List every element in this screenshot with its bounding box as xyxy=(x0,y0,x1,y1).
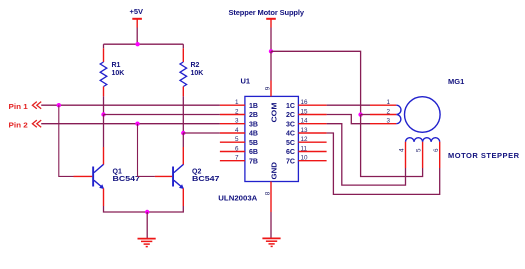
svg-text:11: 11 xyxy=(301,145,308,152)
svg-text:MG1: MG1 xyxy=(448,77,464,86)
wire R1 to row2 xyxy=(103,96,105,114)
svg-text:COM: COM xyxy=(272,102,279,122)
motor pin numbers 1 2 3 xyxy=(386,99,390,125)
resistor R2 xyxy=(180,44,203,96)
U1 pin 9 lead xyxy=(270,81,272,97)
svg-text:9: 9 xyxy=(265,86,272,90)
wire R1 junction to Q1 collector xyxy=(103,115,105,148)
wire supply rail right xyxy=(271,51,361,114)
U1 inside pin names left xyxy=(249,103,258,166)
svg-text:1C: 1C xyxy=(286,103,295,110)
svg-text:12: 12 xyxy=(301,136,309,143)
svg-text:MOTOR STEPPER: MOTOR STEPPER xyxy=(448,151,520,160)
junction Pin1/Q1 base xyxy=(57,103,61,107)
svg-text:1B: 1B xyxy=(249,103,258,110)
svg-text:10: 10 xyxy=(301,155,309,162)
junction supply/motor pin2 xyxy=(358,112,362,116)
wire +5V to rail xyxy=(136,28,138,45)
input Pin 2 xyxy=(9,120,42,129)
junction row3/Q2 base xyxy=(135,122,139,126)
wire supply to COM pin9 xyxy=(270,51,272,80)
svg-text:Q1: Q1 xyxy=(113,168,122,175)
transistor Q2 xyxy=(155,147,220,206)
wire row2 R1 to U1 pin2 xyxy=(104,114,220,116)
svg-text:6C: 6C xyxy=(286,149,295,156)
svg-text:4C: 4C xyxy=(286,131,295,138)
wire rail R1-R2 xyxy=(104,43,184,45)
svg-text:3C: 3C xyxy=(286,121,295,128)
svg-text:6: 6 xyxy=(235,145,239,152)
junction rail xyxy=(135,42,139,46)
motor MG1 xyxy=(405,77,520,160)
svg-text:10K: 10K xyxy=(191,70,204,77)
svg-text:BC547: BC547 xyxy=(192,176,220,183)
motor pin numbers 4 5 6 xyxy=(399,148,440,152)
motor pin3 lead xyxy=(370,123,396,125)
op IC U1 ULN2003A box xyxy=(218,77,298,203)
transistor Q1 xyxy=(74,147,141,206)
ground right xyxy=(262,238,280,246)
svg-text:2B: 2B xyxy=(249,112,258,119)
motor pin6 lead xyxy=(439,142,441,168)
resistor R1 xyxy=(100,44,124,96)
svg-text:Q2: Q2 xyxy=(192,168,201,175)
U1 left pin numbers xyxy=(235,99,239,162)
svg-text:3: 3 xyxy=(386,118,390,125)
svg-text:5C: 5C xyxy=(286,140,295,147)
svg-text:2: 2 xyxy=(235,108,239,115)
wire row1 Pin1 to U1 pin1 xyxy=(41,104,220,106)
U1 right pin leads 16-10 xyxy=(298,105,326,161)
svg-text:7C: 7C xyxy=(286,158,295,165)
svg-text:7: 7 xyxy=(235,155,239,162)
svg-text:1: 1 xyxy=(386,99,390,106)
wire pin8 to ground xyxy=(270,212,272,238)
svg-text:4: 4 xyxy=(235,127,239,134)
svg-text:BC547: BC547 xyxy=(113,176,141,183)
svg-text:10K: 10K xyxy=(112,70,125,77)
wire supply down to motor pin5 xyxy=(361,115,423,177)
ground left xyxy=(138,239,156,247)
svg-text:5: 5 xyxy=(416,148,423,152)
svg-text:Pin 1: Pin 1 xyxy=(9,102,28,111)
svg-text:4B: 4B xyxy=(249,131,258,138)
power Stepper Motor Supply xyxy=(229,8,305,27)
wire bus to ground xyxy=(146,212,148,238)
svg-text:GND: GND xyxy=(272,162,279,180)
junction supply T xyxy=(269,49,273,53)
motor pin1 lead xyxy=(370,104,396,106)
svg-text:1: 1 xyxy=(235,99,239,106)
wire U1 pin15 to motor pin3 xyxy=(327,115,370,124)
motor pin4 lead xyxy=(405,142,407,168)
svg-text:5: 5 xyxy=(235,136,239,143)
svg-text:Stepper Motor Supply: Stepper Motor Supply xyxy=(229,8,305,17)
svg-text:2: 2 xyxy=(386,108,390,115)
U1 inside pin names right xyxy=(286,103,295,166)
U1 right pin numbers xyxy=(301,99,309,162)
svg-text:3B: 3B xyxy=(249,121,258,128)
motor pin5 lead xyxy=(422,142,424,168)
wire emitter bus xyxy=(104,206,184,212)
motor pin2 lead xyxy=(370,114,396,116)
wire R2 to row4 xyxy=(182,96,184,133)
power +5V xyxy=(130,7,144,28)
motor bottom winding xyxy=(406,138,440,142)
junction R2/row4 xyxy=(181,131,185,135)
wire U1 pin13 to motor pin6 xyxy=(327,133,440,194)
svg-text:Pin 2: Pin 2 xyxy=(9,120,28,129)
svg-text:6: 6 xyxy=(433,148,440,152)
svg-text:6B: 6B xyxy=(249,149,258,156)
input Pin 1 xyxy=(9,102,42,111)
U1 left pin leads 1-7 xyxy=(220,105,245,161)
svg-text:13: 13 xyxy=(301,127,309,134)
wire Q2 base drop xyxy=(138,124,155,177)
wire U1 pin14 to motor pin4 xyxy=(327,124,406,185)
wire row3 Pin2 to U1 pin3 xyxy=(41,123,220,125)
svg-text:8: 8 xyxy=(265,191,272,195)
junction R1/row2 xyxy=(101,112,105,116)
svg-text:5B: 5B xyxy=(249,140,258,147)
svg-text:2C: 2C xyxy=(286,112,295,119)
motor left winding xyxy=(396,105,401,124)
U1 pin 8 lead xyxy=(270,182,272,213)
svg-text:3: 3 xyxy=(235,118,239,125)
svg-text:14: 14 xyxy=(301,118,309,125)
wire Q1 base drop xyxy=(59,105,74,176)
svg-text:15: 15 xyxy=(301,108,309,115)
wire supply branch to motor pin2 xyxy=(361,114,370,116)
svg-text:+5V: +5V xyxy=(130,7,144,16)
junction emitter bus xyxy=(145,210,149,214)
wire U1 pin16 to motor pin1 xyxy=(327,104,370,106)
svg-text:4: 4 xyxy=(399,148,406,152)
svg-text:R1: R1 xyxy=(112,62,121,69)
wire row4 R2 to U1 pin4 xyxy=(183,132,220,134)
wire R2 junction to Q2 collector xyxy=(182,133,184,147)
svg-text:ULN2003A: ULN2003A xyxy=(218,194,258,203)
svg-text:U1: U1 xyxy=(241,77,251,86)
svg-text:16: 16 xyxy=(301,99,309,106)
svg-text:R2: R2 xyxy=(191,62,200,69)
wire supply to junction xyxy=(270,28,272,52)
svg-text:7B: 7B xyxy=(249,158,258,165)
